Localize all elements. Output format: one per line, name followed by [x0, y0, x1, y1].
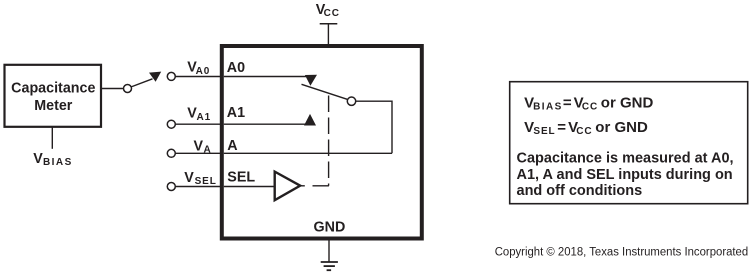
- svg-text:=: =: [563, 94, 572, 111]
- svg-text:A1, A and SEL inputs during on: A1, A and SEL inputs during on: [517, 167, 733, 183]
- svg-text:V: V: [33, 151, 43, 167]
- internal contact arrow down (A0): [305, 75, 317, 86]
- svg-text:A1: A1: [227, 105, 245, 121]
- VCC stub wire: [327, 24, 329, 45]
- internal wire SEL: [224, 186, 274, 188]
- copyright: [495, 246, 749, 258]
- svg-text:V: V: [194, 139, 204, 155]
- svg-text:Copyright © 2018, Texas Instru: Copyright © 2018, Texas Instruments Inco…: [495, 246, 749, 258]
- note line VBIAS: [524, 94, 653, 112]
- svg-text:or GND: or GND: [601, 94, 654, 111]
- svg-text:CC: CC: [582, 102, 598, 113]
- VCC power bar: [320, 23, 338, 25]
- svg-text:CC: CC: [324, 8, 340, 19]
- svg-text:A: A: [227, 138, 237, 154]
- svg-text:BIAS: BIAS: [43, 157, 73, 168]
- ground symbol: [321, 261, 338, 263]
- note line VSEL: [524, 119, 648, 137]
- svg-text:Meter: Meter: [34, 98, 73, 114]
- buffer U2: [275, 172, 301, 201]
- capacitance meter label: [11, 81, 95, 114]
- internal contact arrow up (A1): [304, 114, 316, 126]
- terminal circle SEL: [167, 183, 175, 191]
- svg-text:Capacitance: Capacitance: [11, 81, 95, 97]
- GND stub wire: [328, 241, 330, 263]
- dashed control wire vertical: [328, 96, 330, 186]
- label VA1: [187, 106, 211, 124]
- switch arm: [131, 79, 152, 87]
- internal switch pole circle: [347, 97, 355, 105]
- pin label A0: [227, 60, 245, 76]
- label VA: [194, 139, 212, 156]
- wire meter to switch pole: [102, 88, 124, 90]
- internal wire A: [224, 152, 392, 154]
- dashed control wire horizontal: [301, 185, 329, 187]
- svg-text:V: V: [184, 170, 194, 186]
- wire to A0 pin: [175, 76, 220, 78]
- svg-text:Capacitance is measured at A0,: Capacitance is measured at A0,: [517, 151, 734, 167]
- terminal circle A0: [167, 72, 175, 80]
- IC box U1: [222, 46, 422, 239]
- wire to A pin: [175, 152, 220, 154]
- VCC label: [316, 2, 340, 19]
- svg-text:A0: A0: [196, 66, 211, 77]
- svg-text:SEL: SEL: [195, 176, 217, 187]
- svg-text:CC: CC: [576, 126, 592, 137]
- note paragraph: [517, 151, 734, 200]
- note box: [510, 82, 748, 204]
- switch contact arrow: [149, 72, 161, 82]
- svg-text:=: =: [557, 119, 566, 136]
- GND pin label: [314, 220, 346, 236]
- svg-text:A: A: [204, 145, 212, 156]
- svg-text:BIAS: BIAS: [533, 102, 563, 113]
- pin label A1: [227, 105, 245, 121]
- svg-text:A0: A0: [227, 60, 245, 76]
- pin label SEL: [227, 169, 255, 185]
- capacitance meter box: [5, 65, 102, 127]
- svg-text:or GND: or GND: [595, 119, 648, 136]
- switch pole circle: [124, 85, 132, 93]
- wire pole to right: [356, 101, 392, 153]
- svg-text:SEL: SEL: [533, 126, 555, 137]
- terminal circle A1: [167, 120, 175, 128]
- internal wire A1: [224, 123, 310, 125]
- VBIAS stub wire: [51, 127, 53, 149]
- label VA0: [187, 60, 210, 78]
- svg-text:A1: A1: [197, 112, 212, 123]
- wire to A1 pin: [175, 123, 220, 125]
- svg-text:GND: GND: [314, 220, 346, 236]
- svg-text:and off conditions: and off conditions: [517, 183, 643, 199]
- wire to SEL pin: [175, 186, 220, 188]
- label VBIAS: [33, 151, 72, 168]
- internal wire A0: [224, 76, 310, 78]
- pin label A: [227, 138, 237, 154]
- svg-text:SEL: SEL: [227, 169, 255, 185]
- internal switch arm: [302, 84, 349, 99]
- terminal circle A: [167, 149, 175, 157]
- label VSEL: [184, 170, 216, 187]
